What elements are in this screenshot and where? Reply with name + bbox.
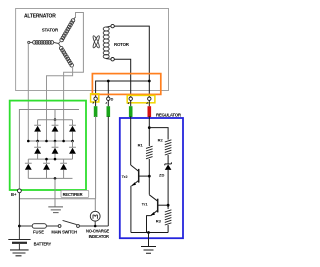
terminal B+ circle bbox=[18, 189, 22, 193]
rotor slip ring brush bottom bbox=[106, 58, 114, 61]
svg-text:ROTOR: ROTOR bbox=[114, 42, 130, 47]
terminal T1 arrow mark bbox=[92, 101, 94, 103]
ground symbol rectifier bbox=[48, 207, 63, 213]
label R3 bbox=[156, 219, 162, 224]
stator coil L2 lead bbox=[74, 17, 76, 19]
svg-text:REGULATOR: REGULATOR bbox=[156, 112, 182, 117]
stator Y-center node bbox=[59, 42, 61, 47]
junction lower rail col2 bbox=[54, 158, 57, 161]
wire B+ down to battery junction bbox=[18, 193, 20, 240]
yellow terminal box B bbox=[91, 94, 99, 102]
label B+ bbox=[11, 192, 17, 197]
rectifier B+ rail bbox=[19, 110, 79, 189]
wire color bar red T4 bbox=[148, 106, 152, 117]
wire battery node to fuse bbox=[19, 225, 32, 227]
diode D1 (upper col1) bbox=[34, 120, 41, 141]
rotor field coil bbox=[103, 27, 109, 59]
zener diode ZD bbox=[165, 162, 172, 170]
ground symbol regulator bbox=[141, 247, 156, 254]
junction Tr1 base node bbox=[167, 204, 170, 207]
svg-text:ZD: ZD bbox=[159, 172, 164, 177]
terminal T2 arrow mark bbox=[105, 102, 107, 104]
wire R3 to ground rail bbox=[167, 225, 169, 233]
rectifier green box bbox=[10, 101, 86, 190]
wire regulator rail to ground bbox=[148, 233, 150, 247]
stator coil L3 (lower-right phase coil) bbox=[59, 46, 74, 68]
stator coil L2 (upper-right phase coil) bbox=[59, 18, 75, 42]
junction aux rail at phase2 bbox=[45, 158, 48, 161]
transistor Tr2 bbox=[131, 165, 150, 186]
alternator enclosure box bbox=[16, 9, 169, 91]
wire branch to R2 bbox=[149, 128, 168, 140]
wire zener to Tr1 base node bbox=[167, 170, 169, 209]
junction ground rail tap bbox=[54, 177, 57, 180]
rectifier lower rail bbox=[28, 158, 72, 160]
junction ground rail center bbox=[147, 231, 150, 234]
rectifier mid AC rail bbox=[28, 140, 72, 142]
label NO-CHARGE INDICATOR bbox=[86, 229, 110, 239]
junction mid rail phase1 bbox=[27, 140, 30, 143]
svg-text:Tr2: Tr2 bbox=[122, 174, 129, 179]
wire B+ horizontal to lamp node bbox=[19, 198, 95, 200]
battery plates bbox=[8, 240, 30, 243]
terminal T1 (B) bbox=[94, 97, 97, 100]
label MAIN SWITCH bbox=[51, 230, 77, 235]
main switch S1 bbox=[58, 220, 79, 227]
junction regulator supply node bbox=[148, 126, 151, 129]
label Tr1 bbox=[142, 202, 149, 207]
wire Tr1 emitter to ground rail bbox=[147, 216, 151, 233]
resistor R2 bbox=[165, 140, 172, 155]
svg-text:R1: R1 bbox=[138, 142, 144, 147]
rectifier top rail bbox=[38, 119, 73, 121]
label R1 bbox=[138, 142, 144, 147]
junction lamp bottom bbox=[94, 225, 97, 228]
label FUSE bbox=[33, 230, 44, 235]
wire color bar green T2 bbox=[107, 106, 111, 117]
junction B+ link to top rail bbox=[54, 118, 57, 121]
rotor slip ring brush top bbox=[106, 24, 114, 27]
label REGULATOR bbox=[156, 112, 182, 117]
stator coil L1 (horizontal phase coil) bbox=[28, 41, 59, 45]
wire color bar green T3 bbox=[129, 106, 133, 117]
transistor Tr1 bbox=[149, 195, 168, 216]
svg-text:B+: B+ bbox=[11, 192, 17, 197]
diode D5 (lower col2) bbox=[52, 141, 59, 159]
wire T2 down to lamp node bbox=[107, 116, 109, 226]
svg-text:STATOR: STATOR bbox=[42, 27, 59, 32]
junction mid rail col1 bbox=[36, 140, 39, 143]
field bus wire y81 bbox=[96, 81, 150, 97]
svg-text:MAIN SWITCH: MAIN SWITCH bbox=[51, 230, 77, 235]
wire Tr2 emitter to ground rail bbox=[130, 186, 132, 233]
wire R2 to zener bbox=[167, 155, 169, 164]
junction field bus at T4 bbox=[148, 80, 151, 83]
ground symbol battery bbox=[10, 250, 29, 256]
resistor R3 bbox=[165, 210, 172, 225]
svg-text:D: D bbox=[111, 97, 114, 101]
wire color bar green T1 bbox=[94, 106, 98, 117]
diode D8 (aux col2) bbox=[43, 159, 50, 178]
junction field bus at T2 bbox=[107, 80, 110, 83]
label ROTOR bbox=[114, 42, 130, 47]
svg-text:RECTIFIER: RECTIFIER bbox=[63, 192, 83, 197]
wire T4 supply into regulator bbox=[148, 116, 150, 146]
wire R1 bottom to node bbox=[148, 159, 150, 195]
svg-text:R3: R3 bbox=[156, 219, 162, 224]
junction mid rail phase2 bbox=[45, 140, 48, 143]
rotor pole fan symbol bbox=[92, 35, 100, 48]
terminal T2 (N) bbox=[107, 97, 110, 100]
diode D3 (upper col3) bbox=[69, 120, 76, 141]
regulator ground rail bbox=[131, 232, 168, 234]
label ZD bbox=[159, 172, 164, 177]
wire T1 stub to bar bbox=[95, 100, 97, 106]
regulator blue box bbox=[120, 118, 183, 238]
label RECTIFIER bbox=[63, 192, 83, 197]
svg-text:INDICATOR: INDICATOR bbox=[89, 234, 109, 239]
wire lamp bottom stub bbox=[94, 221, 96, 226]
svg-text:FUSE: FUSE bbox=[33, 230, 44, 235]
diode D9 (aux col3) bbox=[60, 159, 67, 178]
wire phase3 from stator coil L2 to rectifier bbox=[64, 13, 84, 142]
terminal T4 (E) bbox=[148, 97, 151, 100]
yellow terminal box F/E bbox=[127, 95, 155, 102]
terminal T3 arrow mark bbox=[127, 102, 129, 104]
wire from bottom brush down to terminal F bbox=[114, 59, 130, 97]
label ALTERNATOR bbox=[24, 14, 56, 20]
wire rectifier ground tap bbox=[54, 178, 56, 207]
wire switch to lamp node bbox=[79, 225, 108, 227]
svg-text:R2: R2 bbox=[158, 137, 164, 142]
wire from top brush to field node bbox=[114, 26, 149, 81]
wire phase1 from stator to rectifier bbox=[27, 44, 29, 142]
no-charge indicator lamp bbox=[90, 211, 100, 221]
wire T4 stub to bar bbox=[148, 100, 150, 106]
wire T1 down to lamp bbox=[94, 116, 96, 211]
orange connector box bbox=[92, 74, 160, 95]
wire T3 stub to bar bbox=[130, 100, 132, 106]
diode D4 (lower col1) bbox=[34, 141, 41, 159]
label R2 bbox=[158, 137, 164, 142]
terminal T2 label D bbox=[111, 97, 114, 101]
junction mid rail phase3 bbox=[62, 140, 65, 143]
wire phase2 from stator coil L3 to rectifier bbox=[47, 66, 73, 141]
resistor R1 bbox=[146, 146, 153, 159]
rectifier label box bbox=[61, 190, 89, 197]
svg-text:ALTERNATOR: ALTERNATOR bbox=[24, 14, 56, 20]
junction mid rail col3 bbox=[71, 140, 74, 143]
terminal T4 arrow mark bbox=[146, 102, 148, 104]
label STATOR bbox=[42, 27, 59, 32]
rectifier ground rail bbox=[28, 177, 72, 179]
junction mid rail col2 bbox=[54, 140, 57, 143]
label BATTERY bbox=[34, 241, 52, 246]
label Tr2 bbox=[122, 174, 129, 179]
rectifier B+ rail link bbox=[54, 110, 56, 120]
svg-text:Tr1: Tr1 bbox=[142, 202, 149, 207]
wire fuse to switch bbox=[46, 225, 58, 227]
svg-text:BATTERY: BATTERY bbox=[34, 241, 52, 246]
diode D2 (upper col2) bbox=[52, 120, 59, 141]
junction Tr2 base node bbox=[148, 175, 151, 178]
wire T3 field into regulator to Tr2 collector bbox=[130, 116, 132, 165]
wire battery to ground bbox=[18, 244, 20, 250]
wire T2 stub to bar bbox=[107, 100, 109, 106]
terminal T3 (F) bbox=[129, 97, 132, 100]
diode D6 (lower col3) bbox=[69, 141, 76, 159]
junction battery node bbox=[18, 225, 21, 228]
diode D7 (aux col1) bbox=[25, 159, 32, 178]
fuse F1 bbox=[32, 224, 46, 229]
